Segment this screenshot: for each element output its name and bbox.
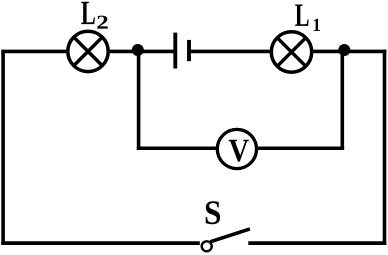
wire bottom left segment (1, 241, 200, 245)
wire right side (383, 50, 387, 245)
wire voltmeter branch horizontal (137, 147, 344, 151)
wire bottom right segment (248, 241, 386, 245)
wire top right segment (189, 50, 386, 54)
switch S pivot (202, 241, 212, 251)
node A (left junction dot) (132, 44, 144, 56)
label L2 (81, 2, 94, 24)
wire top left segment (1, 50, 175, 54)
lamp L1 (271, 32, 311, 72)
battery cell: long plate (173, 33, 177, 69)
wire left side (1, 50, 5, 245)
wire voltmeter branch vertical right (340, 50, 344, 150)
wire voltmeter branch vertical left (137, 50, 141, 150)
voltmeter V (217, 129, 256, 168)
node B (right junction dot) (338, 44, 350, 56)
label S (206, 201, 220, 224)
battery cell: short plate (187, 40, 191, 61)
lamp L2 (68, 31, 108, 71)
label L1 (295, 5, 308, 26)
switch S lever (210, 229, 250, 242)
